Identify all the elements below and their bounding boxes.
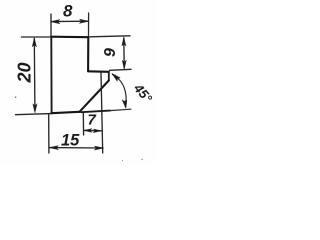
extension line top-left for dim 20: [22, 36, 52, 38]
extension line right for dim 8 (above part corner): [88, 13, 90, 36]
arrow left dim 15: [49, 146, 58, 150]
svg-text:45°: 45°: [130, 80, 155, 106]
svg-text:8: 8: [63, 2, 73, 21]
dimension line 20: [33, 39, 36, 111]
extension line horizontal for angle 45 (thick left part): [81, 111, 110, 113]
arrow right dim 7: [93, 129, 101, 133]
extension line left for dim 7 (from chamfer bottom corner): [82, 114, 84, 136]
arrow down dim 9: [122, 60, 126, 69]
extension line bottom-right for dim 9: [110, 69, 132, 70]
arrow top of angle arc: [112, 73, 120, 81]
extension line left for dim 8: [50, 14, 52, 36]
angle arc 45: [113, 75, 127, 107]
scan speck near left margin: [15, 96, 17, 98]
dimension line 7: [84, 129, 101, 131]
dimension line 15: [50, 147, 104, 149]
extension line horizontal for angle 45 (thin right part): [110, 109, 131, 110]
part right stem edge: [87, 37, 89, 71]
part top edge: [51, 36, 89, 39]
extension line top-right for dim 9: [90, 36, 130, 37]
arrow left dim 8: [51, 20, 60, 24]
part bottom edge: [51, 112, 79, 113]
part chamfer 45 deg: [80, 81, 109, 112]
scan speck bottom right 2: [122, 160, 123, 161]
part step edge: [88, 70, 109, 73]
svg-text:20: 20: [15, 62, 35, 83]
part left edge: [50, 37, 52, 114]
svg-text:15: 15: [61, 132, 80, 150]
dimension line 9: [123, 38, 125, 68]
scan speck bottom right: [141, 159, 142, 160]
arrow right dim 15: [94, 146, 103, 150]
arrow right dim 8: [80, 19, 89, 23]
arrow down dim 20: [33, 104, 37, 113]
dimension line 8: [52, 20, 89, 22]
extension line bottom-left for dim 20: [16, 114, 52, 115]
arrow up dim 20: [32, 38, 36, 47]
arrow left dim 7: [84, 129, 92, 133]
svg-text:7: 7: [88, 112, 97, 129]
svg-text:9: 9: [102, 48, 119, 57]
extension line right shared dims 7 and 15: [101, 73, 103, 154]
arrow up dim 9: [122, 37, 126, 46]
arrow bottom of angle arc: [122, 100, 127, 109]
extension line left for dim 15: [48, 115, 50, 154]
part short right edge: [108, 72, 110, 81]
